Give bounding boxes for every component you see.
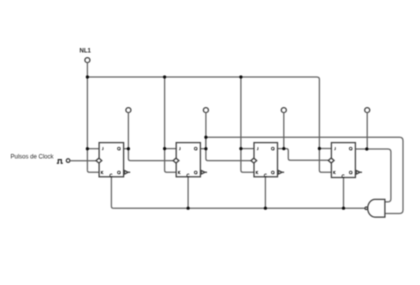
wire FF2 J stub [165, 148, 177, 150]
wire FF4 J stub [319, 148, 331, 150]
node junction NL1 bus [86, 75, 89, 78]
wire FF4 drop down to K [319, 149, 331, 173]
node junction Q1 tap [127, 147, 130, 150]
terminal probe T3 above Q3 [281, 108, 286, 113]
node junction Q4 tap [365, 147, 368, 150]
node junction bus FF2 drop [163, 75, 166, 78]
wire FF3 J stub [241, 148, 254, 150]
terminal NL1 [85, 58, 90, 63]
wire Q3 right, down and right to FF4 clock [284, 149, 329, 161]
node junction clear bus FF4 [342, 207, 345, 210]
node junction clear bus FF3 [264, 207, 267, 210]
terminal probe T1 above Q1 [126, 108, 131, 113]
wire T3 down to Q3 node [283, 112, 285, 148]
wire Q4 out stub to tap node [355, 148, 366, 150]
node junction FF4 J [318, 147, 321, 150]
wire T4 down to Q4 node [366, 112, 368, 149]
node junction Q2 tap [204, 147, 207, 150]
node junction Q3 tap [282, 147, 285, 150]
nand gate U5 (left-facing) [365, 199, 385, 217]
svg-text:NL1: NL1 [80, 49, 92, 55]
flip-flop U1 JK [96, 143, 130, 177]
wire FF1 J stub [87, 148, 99, 150]
svg-text:Pulsos de Clock: Pulsos de Clock [11, 155, 55, 161]
wire Q3 out stub to tap node [278, 148, 284, 150]
wire clock terminal to FF1 clock diamond [70, 160, 96, 162]
wire FF3 C pin down to clear bus [264, 177, 266, 208]
node junction FF1 J [86, 147, 89, 150]
wire FF2 C pin down to clear bus [187, 177, 189, 208]
wire Q2 tap up to NAND branch node [205, 137, 207, 149]
wire Q1 down and right to FF2 clock [128, 149, 173, 161]
wire FF3 left drop from bus [241, 77, 254, 172]
clock pulse symbol [57, 160, 63, 164]
wire FF1 left drop (NL1 down to J and K) [86, 77, 88, 170]
node junction clear bus FF2 [187, 207, 190, 210]
wire T2 down to Q2 node [205, 112, 207, 148]
node junction bus FF3 drop [239, 75, 242, 78]
flip-flop U2 JK [173, 143, 207, 177]
terminal probe T2 above Q2 [203, 108, 208, 113]
wire T1 down to Q1 node [127, 112, 129, 148]
flip-flop U3 JK [251, 143, 284, 177]
wire Q4 right and down to NAND top input [367, 149, 391, 202]
node junction FF3 J [239, 147, 242, 150]
wire top bus from NL1 to FF4 drop with corner down [87, 77, 319, 149]
terminal clock input [66, 159, 70, 163]
wire Q1 out stub to tap node [124, 148, 129, 150]
wire FF1 K stub [87, 170, 99, 172]
node junction Q2 nand branch [204, 136, 207, 139]
terminal probe T4 above Q4 [365, 108, 370, 113]
wire FF2 left drop from bus [165, 77, 177, 172]
node junction FF2 J [163, 147, 166, 150]
wire Q2 to NAND bottom input (long top route) [206, 137, 403, 213]
wire FF1 C pin down to clear bus [111, 177, 113, 208]
wire FF4 C pin down to clear bus [343, 177, 345, 208]
wire NL1 terminal down to top bus [86, 62, 88, 77]
flip-flop U4 JK [328, 143, 362, 178]
wire clear bus from FF1 to NAND output bubble [113, 207, 365, 209]
wire Q2 out stub to tap node [200, 148, 206, 150]
wire Q2 down and right to FF3 clock [206, 149, 251, 161]
